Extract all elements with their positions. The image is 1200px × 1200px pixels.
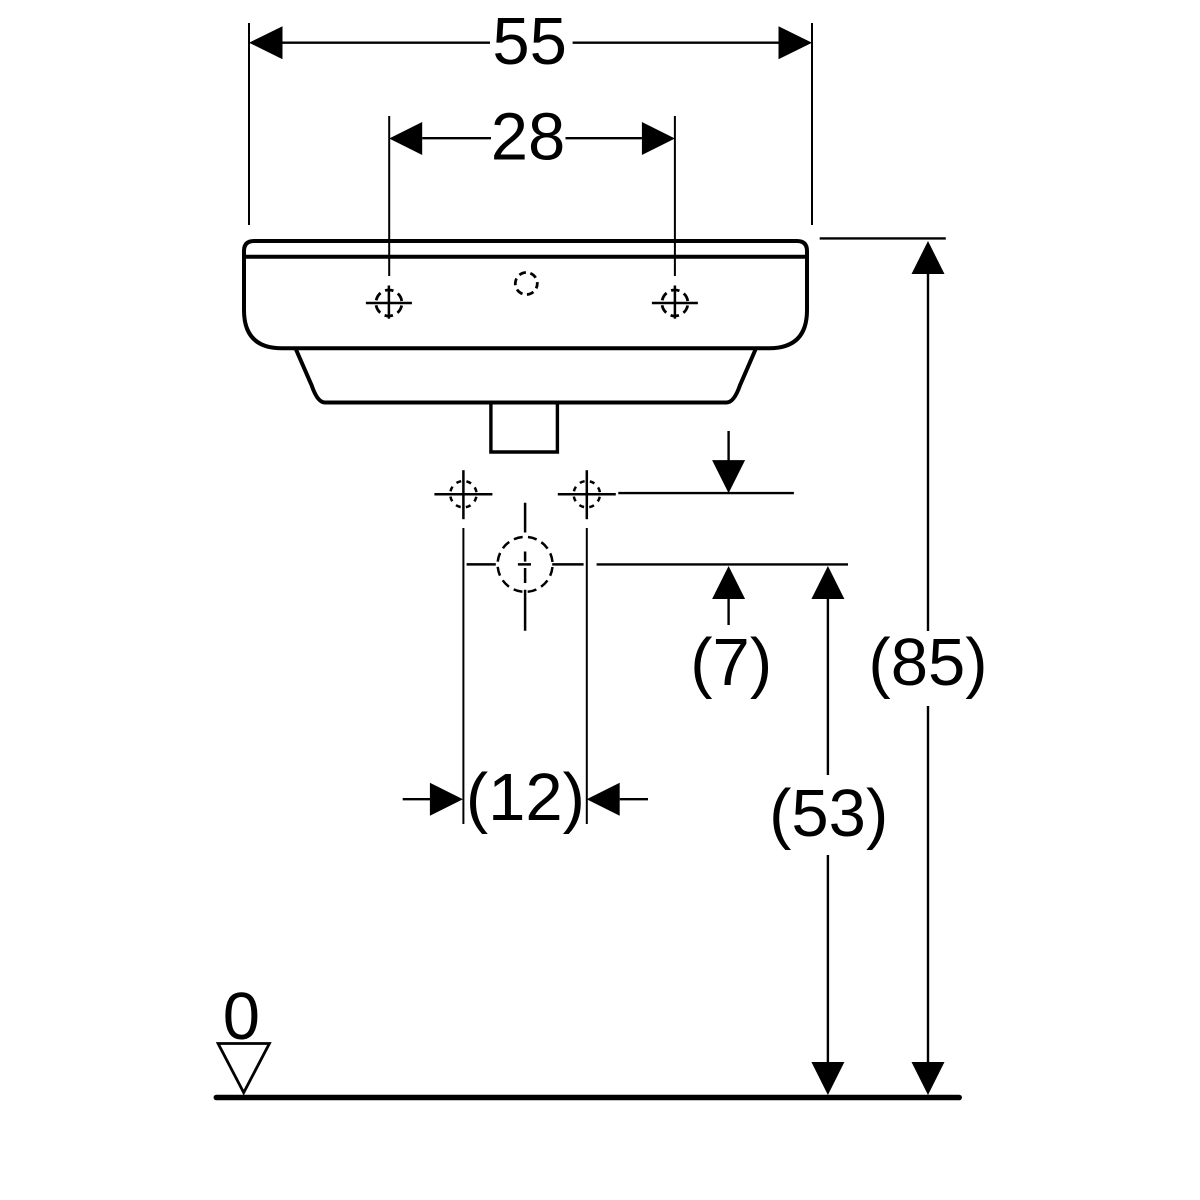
- tap hole right cross horizontal: [652, 302, 698, 305]
- supply connection right cross vertical: [586, 470, 589, 519]
- svg-text:(85): (85): [868, 625, 987, 700]
- dimension (7) down arrow: [712, 460, 745, 493]
- trap centerline vertical: [524, 503, 527, 631]
- overflow hole dashed circle: [515, 273, 537, 295]
- dimension 55 extension line left: [248, 23, 250, 225]
- dimension (12) left arrow tail: [403, 798, 430, 800]
- tap hole right cross vertical: [674, 286, 677, 319]
- reference line supply level: [618, 492, 794, 494]
- trap centerline horizontal: [467, 563, 584, 566]
- dimension 55 line left segment: [283, 42, 491, 44]
- dimension 55 arrow left: [249, 26, 283, 59]
- dimension (85) up arrow: [912, 241, 945, 274]
- supply connection right dashed circle: [574, 481, 600, 507]
- dimension (12) extension line left: [462, 528, 464, 824]
- reference line basin top level: [820, 237, 946, 239]
- svg-text:28: 28: [491, 100, 566, 175]
- dimension (85) line upper segment: [927, 273, 929, 631]
- supply connection left dashed circle: [450, 481, 476, 507]
- supply connection left cross vertical: [462, 470, 465, 519]
- ground line: [216, 1095, 959, 1101]
- dimension 28 line left segment: [422, 137, 491, 139]
- dimension (85) down arrow: [912, 1062, 945, 1095]
- dimension (7) lower arrow tail: [727, 598, 729, 625]
- dimension 28 extension line right: [674, 116, 676, 276]
- dimension (12) left arrow: [430, 783, 463, 816]
- dimension 28 extension line left: [388, 116, 390, 276]
- washbasin lower body (trapezoid): [296, 350, 756, 403]
- dimension (7) upper arrow tail: [727, 431, 729, 461]
- dimension (53) line lower segment: [827, 855, 829, 1063]
- drain outlet rectangle: [491, 403, 558, 452]
- tap hole left cross horizontal: [366, 302, 412, 305]
- datum triangle: [218, 1044, 269, 1093]
- dimension 55 extension line right: [811, 23, 813, 225]
- dimension (12) extension line right: [586, 528, 588, 824]
- dimension 28 arrow left: [389, 122, 422, 155]
- washbasin upper bowl outline: [244, 241, 807, 348]
- dimension (7) up arrow: [712, 566, 745, 599]
- dimension 55 line right segment: [573, 42, 779, 44]
- svg-text:55: 55: [492, 4, 567, 79]
- svg-text:(7): (7): [690, 625, 772, 700]
- tap hole right dashed circle: [662, 290, 688, 316]
- dimension (53) down arrow: [811, 1062, 844, 1095]
- supply connection right cross horizontal: [558, 493, 616, 496]
- tap hole left cross vertical: [388, 286, 391, 319]
- supply connection left cross horizontal: [434, 493, 492, 496]
- tap hole left dashed circle: [376, 290, 402, 316]
- dimension (53) line upper segment: [827, 598, 829, 775]
- svg-text:(53): (53): [769, 776, 888, 851]
- dimension (85) line lower segment: [927, 706, 929, 1063]
- washbasin rim line: [245, 255, 806, 259]
- trap circle dash-dot: [498, 537, 553, 592]
- dimension (12) right arrow tail: [620, 798, 648, 800]
- svg-text:(12): (12): [466, 760, 585, 835]
- reference line trap level: [597, 563, 848, 565]
- dimension 55 arrow right: [779, 26, 813, 59]
- dimension 28 line right segment: [566, 137, 642, 139]
- dimension (53) up arrow: [811, 566, 844, 599]
- dimension (12) right arrow: [587, 783, 620, 816]
- dimension 28 arrow right: [642, 122, 675, 155]
